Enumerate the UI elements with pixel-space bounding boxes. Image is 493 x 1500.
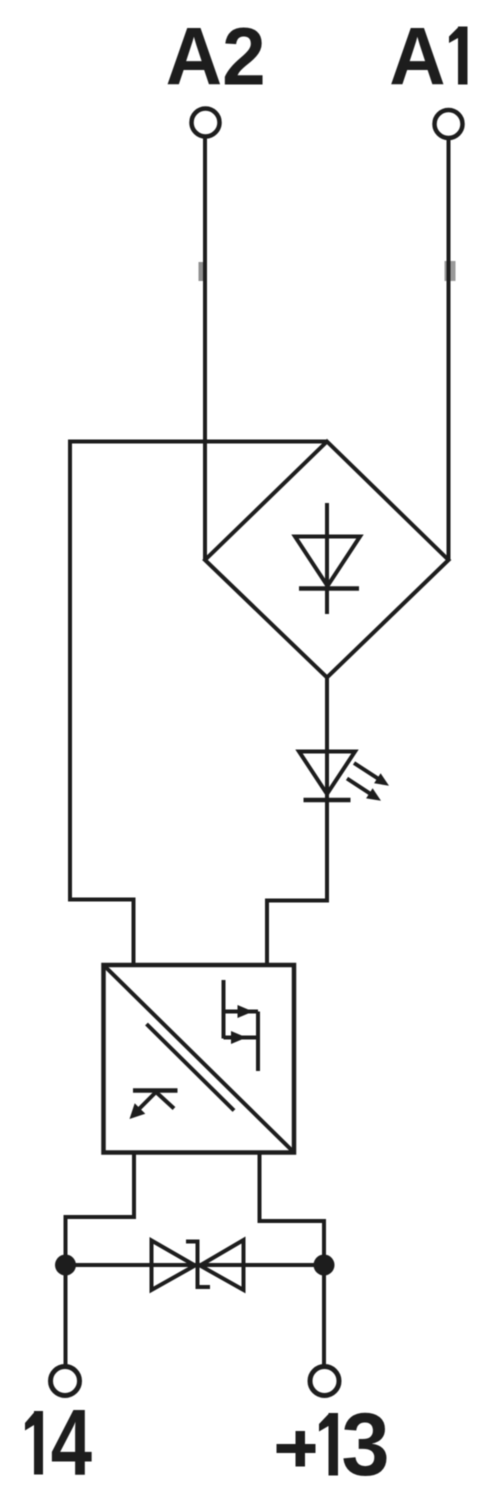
svg-text:3: 3 <box>341 1394 389 1494</box>
svg-text:A: A <box>389 11 445 102</box>
svg-text:A2: A2 <box>166 10 266 102</box>
svg-text:4: 4 <box>51 1389 92 1494</box>
